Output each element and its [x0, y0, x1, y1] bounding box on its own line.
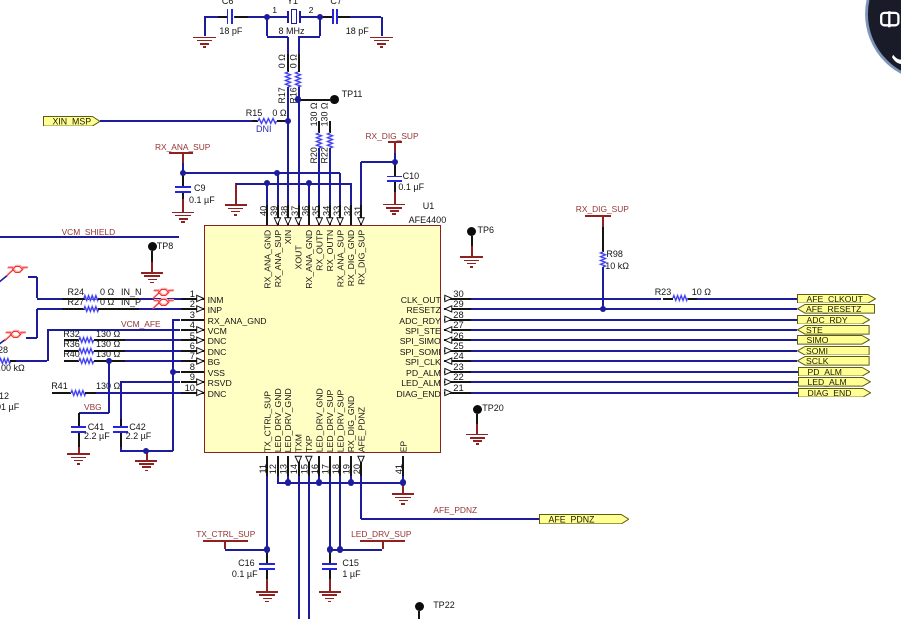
svg-text:RX_OUTP: RX_OUTP [315, 230, 325, 271]
ground (TP8) [141, 272, 163, 274]
wire pin16 to bus [318, 476, 320, 483]
node C16 top [264, 546, 270, 552]
crystal Y1 [267, 16, 287, 18]
capacitor C10 0.1uF [394, 162, 396, 176]
svg-text:20: 20 [352, 464, 362, 474]
svg-text:SOMI: SOMI [806, 346, 828, 356]
pin 5 DNC [181, 339, 205, 341]
test point TP20 [473, 405, 482, 414]
resistor R22 130-ohm DNI [329, 121, 331, 133]
svg-text:19: 19 [341, 464, 351, 474]
net flag AFE_RESETZ [797, 304, 875, 314]
ground (ana gnd rail) [235, 183, 237, 204]
wire pin3/pin8 VSS [173, 319, 180, 321]
node pin18 junction [337, 546, 343, 552]
wire SPI_SOMI [471, 350, 798, 352]
resistor R41 130-ohm [52, 392, 71, 394]
node EP [400, 479, 406, 485]
svg-text:11: 11 [258, 464, 268, 474]
pin 12 LED_DRV_GND [277, 456, 279, 476]
svg-text:LED_DRV_GND: LED_DRV_GND [273, 388, 283, 452]
wire RX_ANA_GND rail [236, 183, 351, 185]
resistor R32 130-ohm [64, 339, 79, 341]
wire SPI_CLK [471, 360, 798, 362]
pin 3 RX_ANA_GND [181, 319, 205, 321]
capacitor C6 [204, 16, 226, 18]
pin 9 RSVD [181, 381, 205, 383]
resistor R24 0-ohm IN_N [37, 298, 181, 300]
svg-text:AFE_PDNZ: AFE_PDNZ [356, 406, 366, 452]
pin 8 VSS [181, 371, 205, 373]
node pin36 [306, 180, 312, 186]
svg-text:AFE_PDNZ: AFE_PDNZ [549, 514, 596, 524]
ground (C41) [67, 453, 89, 455]
power symbol LED_DRV_SUP [351, 530, 411, 538]
ground (EP) [402, 483, 404, 494]
node pin39 junction [274, 170, 280, 176]
node XTAL2 [317, 14, 323, 20]
pin 30 CLK_OUT [444, 298, 471, 300]
node C9 top [180, 170, 186, 176]
svg-text:RX_DIG_SUP: RX_DIG_SUP [356, 230, 366, 285]
pin 16 LED_DRV_GND [318, 456, 320, 476]
net flag DIAG_END [798, 388, 871, 398]
svg-text:38: 38 [280, 206, 290, 216]
test point TP22 [415, 602, 424, 611]
pin 1 INM [181, 298, 205, 300]
pair symbol (IN_P pin) [152, 298, 174, 310]
pair symbol (IN_P left) [0, 0, 1, 1]
node pin16 [316, 479, 322, 485]
ground (C7) [381, 17, 383, 37]
pin 18 LED_DRV_SUP [339, 456, 341, 476]
resistor R23 10-ohm [663, 298, 673, 300]
pin 11 TX_CTRL_SUP [266, 456, 268, 476]
pin 35 RX_OUTP [318, 205, 320, 225]
svg-text:AFE_RESETZ: AFE_RESETZ [806, 304, 861, 314]
svg-text:16: 16 [310, 464, 320, 474]
pin 20 AFE_PDNZ [360, 456, 362, 476]
svg-text:R20: R20 [309, 147, 319, 163]
pin 29 RESETZ [444, 308, 471, 310]
resistor R36 130-ohm [64, 350, 79, 352]
svg-text:LED_ALM: LED_ALM [808, 377, 847, 387]
svg-text:RX_DIG_GND: RX_DIG_GND [346, 396, 356, 452]
svg-text:RX_DIG_GND: RX_DIG_GND [346, 230, 356, 286]
wire XIN column to pin 38 [287, 121, 289, 205]
pin 36 RX_ANA_GND [308, 205, 310, 225]
svg-text:39: 39 [269, 206, 279, 216]
wire to pin 39 [277, 173, 279, 205]
ground (C42) [146, 451, 148, 460]
wire XOUT column to pin 37 [298, 100, 300, 206]
ground (C15) [319, 591, 341, 593]
net VCM_AFE [121, 320, 161, 328]
pin 6 DNC [181, 350, 205, 352]
wire DIAG_END [471, 392, 799, 394]
resistor R98 10kohm [602, 227, 604, 252]
resistor R28 1.00kohm (partial) [0, 358, 10, 364]
resistor R15 0-ohm DNI [252, 120, 258, 122]
svg-text:XOUT: XOUT [294, 245, 304, 270]
pin 37 XOUT [298, 205, 300, 225]
wire to pin 31 [361, 161, 395, 163]
net flag ADC_RDY [797, 315, 870, 325]
wire AFE_PDNZ [360, 476, 362, 519]
svg-text:EP: EP [398, 441, 408, 453]
svg-text:LED_DRV_GND: LED_DRV_GND [283, 388, 293, 452]
wire SPI_STE [471, 329, 798, 331]
pin 23 PD_ALM [444, 371, 471, 373]
pin 33 RX_ANA_SUP [339, 205, 341, 225]
wire pin13 to bus [287, 476, 289, 483]
pin 27 SPI_STE [444, 329, 471, 331]
pin 26 SPI_SIMO [444, 339, 471, 341]
svg-text:RX_ANA_SUP: RX_ANA_SUP [335, 230, 345, 288]
svg-text:XIN: XIN [283, 230, 293, 244]
wire CLK_OUT [471, 298, 662, 300]
pin 25 SPI_SOMI [444, 350, 471, 352]
pin 40 RX_ANA_GND [266, 205, 268, 225]
svg-text:LED_DRV_GND: LED_DRV_GND [315, 388, 325, 452]
svg-text:14: 14 [289, 464, 299, 474]
svg-text:DIAG_END: DIAG_END [808, 388, 852, 398]
resistor R40 130-ohm [64, 360, 79, 362]
wire SPI_SIMO [471, 339, 798, 341]
svg-text:LED_DRV_SUP: LED_DRV_SUP [325, 389, 335, 452]
wire LED_ALM [471, 381, 799, 383]
wire pin12 to bus [277, 476, 279, 483]
power symbol TX_CTRL_SUP [196, 530, 255, 538]
svg-text:35: 35 [311, 206, 321, 216]
wire TXM [298, 476, 300, 619]
svg-text:130 Ω: 130 Ω [309, 102, 319, 126]
capacitor C9 0.1uF [182, 173, 184, 187]
net flag SCLK [797, 356, 870, 366]
node XTAL1 [264, 14, 270, 20]
svg-text:36: 36 [301, 206, 311, 216]
capacitor C16 0.1uF [266, 550, 268, 564]
net VCM_SHIELD [62, 228, 116, 236]
wire VCM to R28 [47, 329, 180, 331]
wire RSVD to C42 [120, 381, 180, 383]
pin 15 TXP [308, 456, 310, 476]
svg-text:13: 13 [279, 464, 289, 474]
wire RESETZ [471, 308, 798, 310]
pin 17 LED_DRV_SUP [329, 456, 331, 476]
power symbol RX_ANA_SUP [155, 143, 210, 151]
wire XTAL2 to XOUT column [319, 17, 321, 37]
svg-text:SIMO: SIMO [807, 335, 829, 345]
svg-text:XIN_MSP: XIN_MSP [52, 116, 91, 126]
svg-text:0 Ω: 0 Ω [289, 54, 299, 68]
capacitor C7 [320, 16, 332, 18]
ground (TP6) [460, 256, 482, 258]
net flag STE [797, 325, 870, 335]
pin 34 RX_OUTN [329, 205, 331, 225]
wire PD_ALM [471, 371, 799, 373]
svg-text:TXM: TXM [294, 434, 304, 452]
pin 14 TXM [298, 456, 300, 476]
svg-text:15: 15 [300, 464, 310, 474]
ground (C16) [256, 591, 278, 593]
net flag SIMO [797, 335, 870, 345]
svg-text:18: 18 [331, 464, 341, 474]
svg-text:31: 31 [353, 206, 363, 216]
node pin40 [264, 180, 270, 186]
net flag AFE_CLKOUT [797, 294, 876, 304]
pin 28 ADC_RDY [444, 319, 471, 321]
pin 32 RX_DIG_GND [350, 205, 352, 225]
svg-text:RX_ANA_SUP: RX_ANA_SUP [273, 230, 283, 288]
pin 41 EP [402, 456, 404, 476]
svg-text:ADC_RDY: ADC_RDY [807, 315, 848, 325]
svg-text:R17: R17 [277, 87, 287, 103]
svg-text:RX_OUTN: RX_OUTN [325, 230, 335, 272]
wire pin19 to bus [350, 476, 352, 483]
net flag SOMI [797, 346, 870, 356]
resistor R17 0-ohm (XIN) [287, 54, 289, 72]
wire to pin 40 [266, 183, 268, 205]
node pin13 [285, 479, 291, 485]
wire to pin 36 [308, 183, 310, 205]
capacitor C12 label (partial) [0, 392, 9, 401]
wire ADC_RDY [471, 319, 798, 321]
node C42 gnd [143, 448, 149, 454]
svg-text:130 Ω: 130 Ω [319, 102, 329, 126]
resistor R27 0-ohm IN_P [37, 308, 181, 310]
pin 19 RX_DIG_GND [350, 456, 352, 476]
pin 22 LED_ALM [444, 381, 471, 383]
wire to pin 33 [339, 173, 341, 205]
net flag AFE_PDNZ [539, 514, 629, 524]
pin 13 LED_DRV_GND [287, 456, 289, 476]
svg-text:40: 40 [259, 206, 269, 216]
pair symbol (IN_N left) [0, 0, 1, 1]
wire pin17/18 LED_DRV_SUP [329, 476, 331, 550]
pin 38 XIN [287, 205, 289, 225]
svg-text:PD_ALM: PD_ALM [808, 367, 842, 377]
svg-text:34: 34 [321, 206, 331, 216]
net flag LED_ALM [798, 377, 871, 387]
svg-text:0 Ω: 0 Ω [277, 54, 287, 68]
capacitor C15 1uF [329, 550, 331, 564]
pair symbol (IN_N pin) [152, 288, 174, 300]
wire XIN_MSP to R15 [100, 120, 254, 122]
net VBG [108, 361, 110, 413]
capacitor C41 2.2uF [78, 413, 80, 427]
wire RX_ANA_SUP rail [183, 172, 340, 174]
svg-text:STE: STE [806, 325, 823, 335]
wire IN_N feed [28, 276, 38, 278]
node VSS [170, 369, 176, 375]
ground (C10) [383, 204, 405, 206]
wire pin11 TX_CTRL_SUP [266, 476, 268, 550]
svg-text:41: 41 [394, 464, 404, 474]
test point TP8 [148, 242, 157, 251]
svg-text:TXP: TXP [304, 435, 314, 452]
svg-text:R22: R22 [319, 147, 329, 163]
node RESETZ [600, 306, 606, 312]
resistor R20 130-ohm DNI [318, 121, 320, 133]
svg-text:12: 12 [268, 464, 278, 474]
svg-text:33: 33 [332, 206, 342, 216]
power symbol RX_DIG_SUP (R98) [576, 205, 629, 213]
svg-text:AFE_CLKOUT: AFE_CLKOUT [807, 294, 864, 304]
wire XTAL1 to XIN column [266, 17, 268, 37]
wire EP to bus [402, 476, 404, 483]
node BG/VBG [106, 358, 112, 364]
wire TXP [308, 476, 310, 619]
node pin19 [348, 479, 354, 485]
power symbol RX_DIG_SUP [366, 132, 419, 140]
ground (C9) [172, 212, 194, 214]
net flag XIN_MSP [43, 116, 100, 127]
pin 31 RX_DIG_SUP [360, 205, 362, 225]
ground (TP20) [466, 434, 488, 436]
svg-text:17: 17 [321, 464, 331, 474]
pin 24 SPI_CLK [444, 360, 471, 362]
wire IN_P feed [26, 337, 37, 339]
test point TP11 [295, 96, 301, 102]
test point TP6 [467, 227, 476, 236]
svg-text:RX_ANA_GND: RX_ANA_GND [262, 230, 272, 289]
svg-text:RX_ANA_GND: RX_ANA_GND [304, 230, 314, 289]
svg-text:TX_CTRL_SUP: TX_CTRL_SUP [262, 391, 272, 453]
resistor R16 0-ohm (XOUT) [298, 54, 300, 72]
node XIN junction [285, 118, 291, 124]
wire LED_DRV_GND bus [277, 482, 403, 484]
wire C42 bottom to VSS [120, 450, 173, 452]
svg-text:37: 37 [290, 206, 300, 216]
pin 2 INP [181, 308, 205, 310]
pin 21 DIAG_END [444, 392, 471, 394]
svg-text:SCLK: SCLK [806, 356, 829, 366]
pin 39 RX_ANA_SUP [277, 205, 279, 225]
pin 10 DNC [181, 392, 205, 394]
capacitor C42 2.2uF [120, 419, 122, 426]
node C10 top [392, 159, 398, 165]
node C15 top [327, 546, 333, 552]
net flag PD_ALM [798, 367, 870, 377]
svg-text:LED_DRV_SUP: LED_DRV_SUP [335, 389, 345, 452]
svg-text:32: 32 [342, 206, 352, 216]
ground (C6) [204, 17, 206, 37]
wire to pin 32 [350, 183, 352, 205]
pin 7 BG [181, 360, 205, 362]
pin 4 VCM [181, 329, 205, 331]
